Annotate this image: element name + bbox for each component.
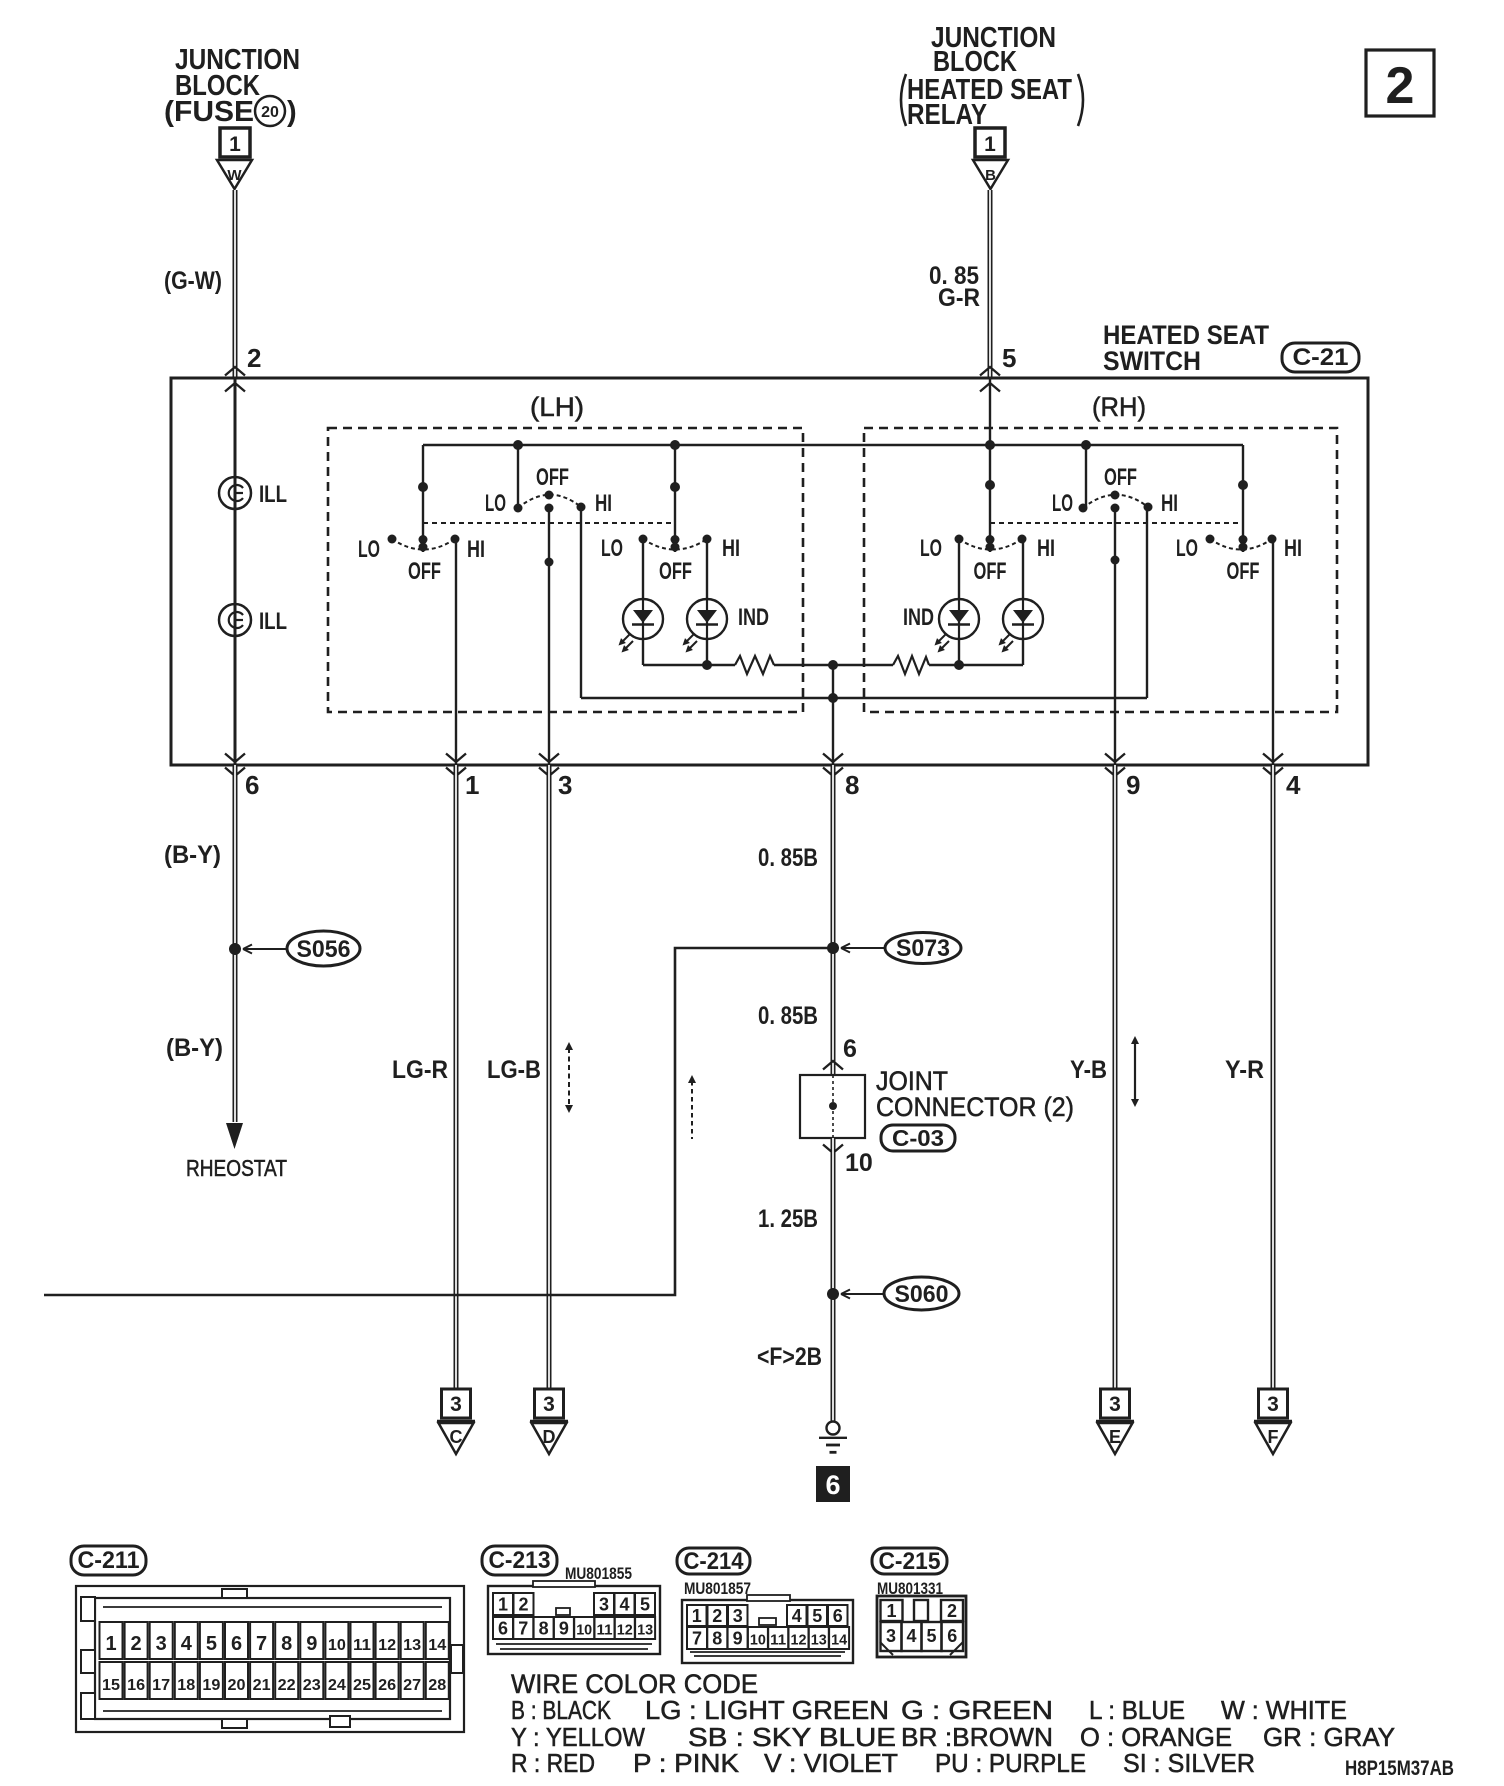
- svg-text:2: 2: [1386, 57, 1415, 115]
- svg-text:1: 1: [498, 1595, 508, 1615]
- splice S060 oval: [884, 1277, 959, 1310]
- svg-text:8: 8: [845, 770, 859, 800]
- svg-text:OFF: OFF: [536, 464, 569, 491]
- wire color code row R P V PU SI: [511, 1748, 1255, 1778]
- page number box 2: [1366, 50, 1434, 116]
- svg-text:20: 20: [261, 104, 279, 121]
- svg-text:3: 3: [558, 770, 572, 800]
- wire pin5 internal: [989, 378, 991, 552]
- resistor RH: [893, 656, 929, 674]
- svg-text:6: 6: [843, 1035, 857, 1063]
- svg-text:S073: S073: [896, 935, 950, 962]
- svg-text:7: 7: [692, 1629, 702, 1649]
- svg-text:7: 7: [518, 1619, 528, 1639]
- svg-text:C-211: C-211: [78, 1547, 140, 1574]
- svg-text:HI: HI: [467, 536, 485, 563]
- resistor LH: [735, 656, 774, 674]
- mech link RH: [990, 522, 1243, 524]
- svg-text:OFF: OFF: [1227, 558, 1260, 585]
- arrow into pin 2: [225, 367, 245, 392]
- switch RH-mid arc: [1083, 495, 1148, 508]
- svg-text:C: C: [450, 1427, 463, 1447]
- svg-text:W: W: [227, 167, 242, 184]
- switch LH-right arc: [643, 539, 707, 550]
- svg-text:): ): [287, 96, 297, 128]
- svg-text:LO: LO: [358, 536, 380, 563]
- wire drop LH-left common: [422, 445, 424, 552]
- updown dashed arrow near LG-B: [565, 1042, 573, 1113]
- svg-text:14: 14: [428, 1637, 446, 1654]
- arrow out of joint connector: [823, 1145, 843, 1154]
- svg-text:Y-R: Y-R: [1225, 1056, 1264, 1084]
- mech link LH: [423, 522, 675, 524]
- wire joint connector to ground: [831, 1138, 836, 1421]
- label Y-R: [1225, 1056, 1264, 1084]
- connector label C-03: [881, 1125, 955, 1151]
- arrow into joint connector: [823, 1061, 843, 1070]
- wire pin1 down: [454, 765, 459, 1389]
- connector label C-213: [482, 1546, 557, 1575]
- label junction block heated seat relay: [901, 22, 1083, 131]
- svg-text:RELAY: RELAY: [907, 99, 987, 131]
- label (LH): [530, 392, 584, 422]
- switch LH-right contacts: [639, 482, 712, 552]
- LH dashed box: [328, 428, 803, 712]
- label LG-B: [487, 1056, 541, 1084]
- label LH-left LO: [358, 536, 380, 563]
- svg-text:Y-B: Y-B: [1070, 1056, 1107, 1084]
- svg-text:GR : GRAY: GR : GRAY: [1263, 1722, 1395, 1752]
- svg-text:OFF: OFF: [408, 558, 441, 585]
- ground reference black box 6: [816, 1466, 850, 1502]
- junction dot HI link pin8: [828, 693, 838, 703]
- svg-text:OFF: OFF: [659, 558, 692, 585]
- svg-text:(B-Y): (B-Y): [166, 1034, 223, 1062]
- svg-text:3: 3: [1109, 1393, 1121, 1416]
- switch LH-left arc: [392, 539, 455, 550]
- wire illumination branch: [234, 378, 237, 765]
- svg-text:G-R: G-R: [938, 284, 980, 312]
- destination box 3 (E): [1101, 1389, 1130, 1418]
- label IND RH: [903, 604, 934, 631]
- wire drop LH-right common: [674, 445, 676, 552]
- svg-text:D: D: [543, 1427, 556, 1447]
- destination box 3 (D): [535, 1389, 564, 1418]
- label ILL1: [259, 481, 287, 508]
- svg-text:9: 9: [306, 1633, 317, 1655]
- svg-text:3: 3: [733, 1606, 743, 1626]
- label LH-left OFF: [408, 558, 441, 585]
- svg-text:11: 11: [597, 1622, 613, 1639]
- svg-text:LO: LO: [485, 490, 506, 517]
- svg-text:OFF: OFF: [1104, 464, 1137, 491]
- svg-text:C-214: C-214: [684, 1548, 745, 1575]
- svg-text:IND: IND: [738, 604, 769, 631]
- svg-text:<F>2B: <F>2B: [757, 1343, 822, 1371]
- svg-text:1. 25B: 1. 25B: [758, 1205, 818, 1233]
- svg-text:LO: LO: [601, 535, 623, 562]
- svg-text:LO: LO: [920, 535, 942, 562]
- svg-text:5: 5: [206, 1633, 217, 1655]
- label RH-mid LO: [1052, 490, 1073, 517]
- svg-text:1: 1: [229, 133, 241, 156]
- svg-text:W : WHITE: W : WHITE: [1221, 1695, 1347, 1725]
- svg-text:(FUSE: (FUSE: [164, 96, 254, 128]
- svg-text:19: 19: [202, 1677, 220, 1694]
- switch LH-mid arc: [518, 495, 581, 508]
- ground symbol: [819, 1422, 847, 1453]
- svg-text:4: 4: [1286, 770, 1301, 800]
- wire color code title: [511, 1669, 758, 1699]
- LED indicator RH hi: [999, 599, 1044, 653]
- label heated seat switch: [1103, 320, 1269, 376]
- svg-text:2: 2: [947, 1601, 957, 1621]
- wire LED feeds RH: [959, 539, 1023, 599]
- label ILL2: [259, 608, 287, 635]
- label MU801331: [877, 1579, 943, 1598]
- joint connector pin 10 label: [845, 1149, 873, 1177]
- label LH-right LO: [601, 535, 623, 562]
- wire relay to pin 5: [988, 190, 993, 378]
- destination triangle E: [1096, 1422, 1134, 1455]
- wire rail middle: [774, 664, 893, 666]
- heated seat switch box: [171, 378, 1368, 765]
- svg-text:LG-B: LG-B: [487, 1056, 541, 1084]
- svg-text:11: 11: [353, 1637, 371, 1654]
- label RH-right LO: [1176, 535, 1198, 562]
- switch LH-left contacts: [388, 482, 460, 552]
- svg-text:6: 6: [245, 770, 259, 800]
- svg-text:10: 10: [328, 1637, 346, 1654]
- pin number 1: [465, 770, 479, 800]
- svg-text:1: 1: [886, 1601, 896, 1621]
- wire pin8 to joint connector: [831, 765, 836, 1075]
- wire pin4 down: [1271, 765, 1276, 1389]
- splice S056 dot: [229, 943, 241, 955]
- triangle W (fuse side): [217, 160, 252, 189]
- updown arrow near Y-B: [1131, 1036, 1139, 1107]
- splice S073 leader: [841, 944, 885, 953]
- svg-text:5: 5: [1002, 343, 1016, 373]
- svg-text:12: 12: [617, 1622, 633, 1639]
- label F 2B: [757, 1343, 822, 1371]
- svg-text:HI: HI: [595, 490, 612, 517]
- svg-text:(B-Y): (B-Y): [164, 841, 221, 869]
- splice S073 dot: [827, 942, 839, 954]
- wire LH-mid HI down: [580, 507, 582, 698]
- label IND LH: [738, 604, 769, 631]
- label LG-R: [392, 1056, 448, 1084]
- svg-text:C-03: C-03: [892, 1125, 944, 1151]
- label LH-right OFF: [659, 558, 692, 585]
- wire RH-mid common to pin9: [1114, 508, 1116, 765]
- splice S060 leader: [841, 1290, 884, 1299]
- label RH-right HI: [1284, 535, 1302, 562]
- svg-text:C-213: C-213: [489, 1547, 551, 1574]
- label 0.85 G-R: [929, 262, 980, 312]
- svg-text:22: 22: [278, 1677, 296, 1694]
- wire drop LH-mid LO feed: [517, 445, 519, 508]
- svg-text:G : GREEN: G : GREEN: [901, 1695, 1053, 1725]
- svg-text:2: 2: [518, 1595, 528, 1615]
- svg-text:20: 20: [228, 1677, 246, 1694]
- label LH-mid HI: [595, 490, 612, 517]
- svg-text:CONNECTOR (2): CONNECTOR (2): [876, 1092, 1074, 1122]
- pin number 9: [1126, 770, 1140, 800]
- svg-text:10: 10: [576, 1622, 592, 1639]
- svg-text:13: 13: [811, 1632, 827, 1649]
- connector drawing C-211 body: [76, 1586, 464, 1732]
- up dashed arrow mid: [688, 1075, 696, 1139]
- arrow out of pin 3: [539, 754, 559, 777]
- svg-text:4: 4: [792, 1606, 802, 1626]
- svg-text:L : BLUE: L : BLUE: [1089, 1695, 1185, 1725]
- label (G-W): [164, 267, 222, 295]
- label Y-B: [1070, 1056, 1107, 1084]
- destination triangle C: [437, 1422, 475, 1455]
- splice S056 oval: [287, 931, 360, 966]
- svg-text:6: 6: [825, 1470, 840, 1500]
- svg-text:6: 6: [833, 1606, 843, 1626]
- svg-text:PU : PURPLE: PU : PURPLE: [935, 1748, 1086, 1778]
- wire RH-mid HI down: [1146, 507, 1148, 698]
- lamp ILL1: [219, 477, 251, 509]
- joint connector pin 6 label: [843, 1035, 857, 1063]
- svg-text:ILL: ILL: [259, 481, 287, 508]
- svg-text:9: 9: [1126, 770, 1140, 800]
- connector drawing C-211 cells: [100, 1622, 449, 1699]
- svg-text:1: 1: [984, 133, 996, 156]
- arrow out of pin 8: [823, 754, 843, 777]
- svg-text:28: 28: [428, 1677, 446, 1694]
- svg-text:S060: S060: [895, 1281, 949, 1308]
- svg-text:25: 25: [353, 1677, 371, 1694]
- svg-text:HI: HI: [722, 535, 740, 562]
- svg-text:27: 27: [403, 1677, 421, 1694]
- svg-text:9: 9: [559, 1619, 569, 1639]
- svg-text:LO: LO: [1052, 490, 1073, 517]
- svg-text:0. 85B: 0. 85B: [758, 844, 818, 872]
- drawing number H8P15M37AB: [1345, 1757, 1454, 1780]
- svg-text:E: E: [1109, 1427, 1121, 1447]
- joint connector box: [800, 1075, 865, 1138]
- pin number 4: [1286, 770, 1301, 800]
- svg-text:S056: S056: [297, 936, 351, 963]
- wire LH-left HI to pin1: [455, 539, 457, 765]
- svg-text:1: 1: [465, 770, 479, 800]
- LED indicator LH lo: [619, 599, 664, 653]
- label (RH): [1092, 392, 1146, 422]
- pin number 3: [558, 770, 572, 800]
- label RH-left OFF: [974, 558, 1007, 585]
- arrow out of pin 4: [1263, 754, 1283, 777]
- switch LH-mid contacts: [514, 491, 586, 567]
- svg-text:F: F: [1268, 1427, 1279, 1447]
- svg-text:8: 8: [281, 1633, 292, 1655]
- svg-text:13: 13: [403, 1637, 421, 1654]
- label LH-left HI: [467, 536, 485, 563]
- svg-text:C-215: C-215: [879, 1548, 941, 1575]
- connector drawing C-215: [877, 1596, 966, 1657]
- svg-text:6: 6: [947, 1626, 957, 1646]
- svg-text:23: 23: [303, 1677, 321, 1694]
- svg-text:3: 3: [543, 1393, 555, 1416]
- label LH-mid LO: [485, 490, 506, 517]
- destination triangle D: [530, 1422, 568, 1455]
- svg-text:3: 3: [1267, 1393, 1279, 1416]
- wire LED rail LH: [643, 664, 735, 666]
- label RH-right OFF: [1227, 558, 1260, 585]
- svg-text:24: 24: [328, 1677, 346, 1694]
- svg-text:H8P15M37AB: H8P15M37AB: [1345, 1757, 1454, 1780]
- svg-text:MU801857: MU801857: [684, 1579, 751, 1598]
- svg-text:16: 16: [127, 1677, 145, 1694]
- junction dots on bus: [513, 440, 1091, 450]
- svg-text:3: 3: [886, 1626, 896, 1646]
- wire drop RH-mid LO feed: [1085, 445, 1087, 508]
- svg-text:SWITCH: SWITCH: [1103, 346, 1201, 376]
- label (B-Y) lower: [166, 1034, 223, 1062]
- label RH-mid HI: [1161, 490, 1178, 517]
- label RH-mid OFF: [1104, 464, 1137, 491]
- wire color code row Y SB BR O GR: [511, 1722, 1395, 1752]
- connector label C-21: [1282, 343, 1359, 372]
- svg-text:21: 21: [253, 1677, 271, 1694]
- ground path to section F: [44, 948, 831, 1295]
- svg-text:26: 26: [378, 1677, 396, 1694]
- label MU801857: [684, 1579, 751, 1598]
- svg-text:7: 7: [256, 1633, 267, 1655]
- svg-text:13: 13: [637, 1622, 653, 1639]
- svg-text:LO: LO: [1176, 535, 1198, 562]
- svg-text:2: 2: [247, 343, 261, 373]
- svg-text:1: 1: [105, 1633, 116, 1655]
- svg-text:(G-W): (G-W): [164, 267, 222, 295]
- svg-text:12: 12: [791, 1632, 807, 1649]
- connector label C-215: [872, 1548, 947, 1575]
- label LH-right HI: [722, 535, 740, 562]
- svg-text:C-21: C-21: [1293, 344, 1349, 371]
- svg-text:(LH): (LH): [530, 392, 584, 422]
- label JOINT CONNECTOR: [876, 1066, 1074, 1122]
- lamp ILL2: [219, 604, 251, 636]
- svg-text:HI: HI: [1284, 535, 1302, 562]
- svg-text:2: 2: [131, 1633, 142, 1655]
- svg-text:10: 10: [750, 1632, 766, 1649]
- svg-text:14: 14: [831, 1632, 848, 1649]
- svg-text:4: 4: [181, 1633, 193, 1655]
- svg-text:SI : SILVER: SI : SILVER: [1123, 1748, 1255, 1778]
- wire pin8 internal: [832, 665, 834, 765]
- connector drawing C-213: [488, 1581, 660, 1654]
- splice S073 oval: [885, 933, 961, 964]
- LED indicator RH lo: [935, 599, 980, 653]
- wire pin6 to rheostat: [233, 765, 238, 1122]
- label MU801855: [565, 1564, 632, 1583]
- connector drawing C-214: [682, 1595, 853, 1663]
- wire LED rail RH: [929, 664, 1023, 666]
- splice S056 leader: [243, 945, 287, 954]
- wire pin9 down: [1113, 765, 1118, 1389]
- svg-text:RHEOSTAT: RHEOSTAT: [186, 1155, 287, 1181]
- svg-text:10: 10: [845, 1149, 873, 1177]
- connector box 1 (fuse side): [220, 128, 250, 157]
- svg-text:5: 5: [640, 1595, 650, 1615]
- wire RH-right HI to pin4: [1272, 539, 1274, 765]
- svg-text:LG : LIGHT GREEN: LG : LIGHT GREEN: [645, 1695, 889, 1725]
- label junction block fuse: [164, 44, 300, 128]
- switch RH-right contacts: [1206, 480, 1277, 552]
- svg-text:17: 17: [152, 1677, 170, 1694]
- svg-text:0. 85B: 0. 85B: [758, 1002, 818, 1030]
- svg-text:6: 6: [498, 1619, 508, 1639]
- arrow out of pin 1: [446, 754, 466, 777]
- connector label C-214: [677, 1548, 750, 1575]
- arrow into pin 5: [980, 367, 1000, 392]
- pin number 2: [247, 343, 261, 373]
- wire drop RH-right common: [1242, 445, 1244, 552]
- svg-text:2: 2: [712, 1606, 722, 1626]
- label 0.85B lower: [758, 1002, 818, 1030]
- svg-text:9: 9: [733, 1629, 743, 1649]
- splice S060 dot: [827, 1288, 839, 1300]
- wire HI link across: [581, 697, 1147, 699]
- svg-text:3: 3: [599, 1595, 609, 1615]
- junction dots on LED rail: [702, 660, 964, 670]
- arrow to rheostat: [226, 1123, 243, 1149]
- label (B-Y) upper: [164, 841, 221, 869]
- label RH-left HI: [1037, 535, 1055, 562]
- label 1.25B: [758, 1205, 818, 1233]
- destination box 3 (C): [442, 1389, 471, 1418]
- svg-text:4: 4: [619, 1595, 629, 1615]
- svg-text:18: 18: [177, 1677, 195, 1694]
- svg-text:P : PINK: P : PINK: [633, 1748, 740, 1778]
- svg-text:6: 6: [231, 1633, 242, 1655]
- svg-text:5: 5: [926, 1626, 936, 1646]
- RH dashed box: [864, 428, 1337, 712]
- svg-text:1: 1: [692, 1606, 702, 1626]
- svg-text:5: 5: [812, 1606, 822, 1626]
- LED indicator LH hi: [683, 599, 728, 653]
- connector box 1 (relay side): [975, 128, 1005, 157]
- svg-text:OFF: OFF: [974, 558, 1007, 585]
- svg-text:B : BLACK: B : BLACK: [511, 1695, 612, 1725]
- svg-text:3: 3: [156, 1633, 167, 1655]
- switch RH-left arc: [959, 539, 1022, 550]
- arrow out of pin 9: [1105, 754, 1125, 777]
- label RHEOSTAT: [186, 1155, 287, 1181]
- svg-text:(RH): (RH): [1092, 392, 1146, 422]
- label LH-mid OFF: [536, 464, 569, 491]
- switch RH-left contacts: [955, 480, 1027, 552]
- svg-text:8: 8: [712, 1629, 722, 1649]
- svg-text:4: 4: [906, 1626, 916, 1646]
- svg-text:V : VIOLET: V : VIOLET: [764, 1748, 898, 1778]
- wire LED bottoms: [643, 639, 1023, 665]
- destination triangle F: [1254, 1422, 1292, 1455]
- label 0.85B upper: [758, 844, 818, 872]
- svg-text:3: 3: [450, 1393, 462, 1416]
- wire pin3 down: [547, 765, 552, 1389]
- wire LED feeds LH: [643, 539, 707, 599]
- svg-text:HI: HI: [1161, 490, 1178, 517]
- destination box 3 (F): [1259, 1389, 1288, 1418]
- svg-text:8: 8: [539, 1619, 549, 1639]
- wire fuse to pin 2: [233, 190, 238, 378]
- svg-text:12: 12: [378, 1637, 396, 1654]
- switch RH-right arc: [1210, 539, 1272, 550]
